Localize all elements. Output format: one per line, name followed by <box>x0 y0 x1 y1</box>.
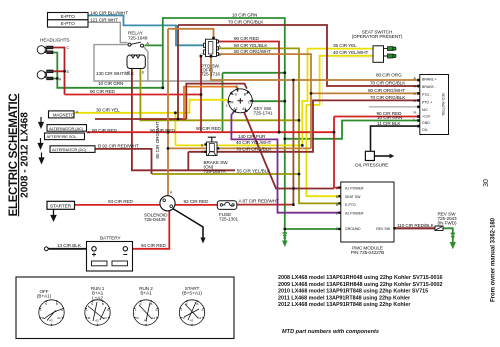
wire 55 CIR YEL/BLK <box>152 173 299 175</box>
wire N/C gray stub <box>369 106 420 108</box>
alternator dc box <box>50 146 95 153</box>
svg-text:B: B <box>197 302 199 306</box>
svg-text:725-1657A: 725-1657A <box>204 169 227 174</box>
svg-text:40 CIR YEL/WHT: 40 CIR YEL/WHT <box>333 50 368 55</box>
wire 70 CIR ORG/BLK top <box>178 25 420 86</box>
connector C30 box <box>420 75 449 135</box>
svg-text:A1: A1 <box>152 316 156 320</box>
svg-text:A2: A2 <box>144 319 148 323</box>
seat switch connector <box>373 46 396 63</box>
svg-text:PTO -: PTO - <box>422 93 432 97</box>
svg-text:725-04439: 725-04439 <box>144 217 166 222</box>
wire 70 CIR ORG/BLK vertical <box>177 25 179 119</box>
svg-text:725-1648: 725-1648 <box>128 36 148 41</box>
wire 140 CIR PUR <box>231 111 340 213</box>
svg-text:2008 - 2012 LX468: 2008 - 2012 LX468 <box>20 112 31 198</box>
svg-text:SEAT SW: SEAT SW <box>345 195 361 199</box>
wire relay coil lead D maroon <box>132 69 235 170</box>
wire 90 CIR RED headlight <box>65 94 202 96</box>
svg-text:90 CIR RED: 90 CIR RED <box>90 89 116 94</box>
wire headlight green <box>53 53 163 88</box>
wire key C orange <box>184 87 239 119</box>
svg-text:A 87 CIR RED/WHT: A 87 CIR RED/WHT <box>239 199 280 204</box>
wire headlight maroon <box>53 48 65 95</box>
svg-text:B: B <box>56 302 58 306</box>
wire 92 CIR RED/WHT <box>95 149 152 174</box>
svg-text:A2: A2 <box>49 319 53 323</box>
wire gray contact2 <box>144 47 148 82</box>
svg-text:A2 POWER: A2 POWER <box>345 211 364 215</box>
svg-text:ALTERNATOR (AC): ALTERNATOR (AC) <box>49 126 84 131</box>
wire maroon stub brake <box>187 152 189 171</box>
svg-text:A2: A2 <box>233 107 237 111</box>
connector C30 pin squares <box>417 79 420 128</box>
starter box <box>47 201 75 209</box>
svg-text:94 CIR RED: 94 CIR RED <box>141 243 167 248</box>
svg-text:B: B <box>151 302 153 306</box>
PTO switch connector <box>200 37 219 58</box>
afterfire sol box <box>45 133 85 140</box>
svg-text:A1: A1 <box>103 316 107 320</box>
wire 80 CIR ORG row <box>211 57 420 81</box>
wire 35 CIR YEL seat <box>302 49 373 146</box>
junction dots <box>283 228 286 231</box>
wire 40 CIR YEL/WHT seat <box>306 56 373 196</box>
wire 90 CIR RED +12V <box>334 116 420 118</box>
ground arrow alternator ac <box>38 138 42 149</box>
svg-text:90 CIR RED: 90 CIR RED <box>234 36 260 41</box>
legend circle START <box>179 300 204 326</box>
E-PTO box top <box>48 13 89 20</box>
svg-text:10 CIR GRN: 10 CIR GRN <box>377 115 402 120</box>
svg-text:L: L <box>226 104 228 108</box>
bottom legend box <box>16 277 234 339</box>
svg-text:OIL: OIL <box>422 128 428 132</box>
wire 80 CIR ORG solenoid vertical <box>167 29 169 196</box>
svg-text:110 CIR RED/BLK: 110 CIR RED/BLK <box>397 223 435 228</box>
wire 110 CIR RED/BLK <box>394 227 435 229</box>
headlight lamp 2 <box>37 70 53 80</box>
svg-text:11 CIR BLK: 11 CIR BLK <box>377 121 401 126</box>
svg-text:70 CIR ORG/BLK: 70 CIR ORG/BLK <box>370 95 406 100</box>
svg-text:B: B <box>102 302 104 306</box>
svg-text:M: M <box>231 100 234 104</box>
svg-text:A2: A2 <box>95 319 99 323</box>
svg-text:130 CIR WHT/BLK: 130 CIR WHT/BLK <box>96 71 135 76</box>
svg-text:2009 LX468 model 13AP61RH848 u: 2009 LX468 model 13AP61RH848 using 22hp … <box>278 282 443 288</box>
svg-text:35 CIR YEL: 35 CIR YEL <box>333 43 357 48</box>
svg-text:725-1741: 725-1741 <box>254 110 274 115</box>
svg-text:80 CIR ORG: 80 CIR ORG <box>376 73 402 78</box>
key switch <box>227 88 253 113</box>
wire 90 CIR RED PTO <box>217 42 279 133</box>
wire solenoid ground <box>173 209 203 238</box>
ground arrow alternator dc <box>39 153 43 164</box>
relay contact symbol <box>128 42 144 47</box>
svg-text:2012 LX468 model 13AP91RT848 u: 2012 LX468 model 13AP91RT848 using 22hp … <box>278 302 411 308</box>
svg-text:725-1301: 725-1301 <box>219 216 239 221</box>
wire 80 CIR ORG F stub <box>168 29 214 38</box>
solenoid <box>160 196 175 211</box>
svg-text:13 CIR BLK: 13 CIR BLK <box>57 243 82 248</box>
svg-text:BRAKE -: BRAKE - <box>422 85 437 89</box>
wire ground rail green <box>285 228 341 230</box>
svg-text:140 CIR BLU/WHT: 140 CIR BLU/WHT <box>90 10 128 15</box>
battery box <box>87 242 133 272</box>
svg-text:MTD part numbers with componen: MTD part numbers with components <box>282 329 379 335</box>
wire 93 CIR RED <box>75 204 160 206</box>
svg-text:92 CIR RED: 92 CIR RED <box>184 199 210 204</box>
svg-text:10 CIR GRN: 10 CIR GRN <box>98 81 123 86</box>
wire green cross loop <box>223 72 285 74</box>
svg-text:OIL PRESSURE: OIL PRESSURE <box>355 162 388 167</box>
wire key S maroon <box>186 84 247 119</box>
svg-text:S: S <box>186 302 188 306</box>
wire 13 CIR BLK <box>48 248 92 250</box>
brake switch <box>204 137 219 155</box>
legend circle OFF <box>39 300 64 326</box>
ground arrow oil pressure <box>390 154 395 159</box>
svg-text:MAGNETO: MAGNETO <box>53 112 75 117</box>
magneto box <box>49 111 75 118</box>
wire key A1 maroon diagonal <box>244 112 334 189</box>
svg-text:E-PTO: E-PTO <box>61 21 75 26</box>
svg-text:80 CIR ORG/WHT: 80 CIR ORG/WHT <box>234 49 271 54</box>
svg-text:140 CIR PUR: 140 CIR PUR <box>238 134 266 139</box>
svg-text:80 CIR ORG/WHT: 80 CIR ORG/WHT <box>155 121 160 158</box>
svg-text:GROUND: GROUND <box>345 227 361 231</box>
oil pressure switch <box>365 151 374 160</box>
svg-text:30: 30 <box>483 179 490 187</box>
svg-text:A1 POWER: A1 POWER <box>345 186 364 190</box>
rev switch <box>435 226 443 231</box>
wire 30 CIR YEL <box>74 100 229 113</box>
svg-text:A1: A1 <box>198 316 202 320</box>
svg-text:725-1716: 725-1716 <box>201 72 221 77</box>
ground arrow solenoid <box>200 238 205 244</box>
svg-text:40 CIR YEL/WHT: 40 CIR YEL/WHT <box>236 140 271 145</box>
svg-text:B+A1: B+A1 <box>140 291 152 296</box>
svg-text:S: S <box>140 302 142 306</box>
svg-text:From owner manual 3362-180: From owner manual 3362-180 <box>491 217 497 302</box>
svg-text:2008 LX468 model 13AP61RH048 u: 2008 LX468 model 13AP61RH048 using 22hp … <box>278 275 443 281</box>
PMC pin squares <box>338 186 395 230</box>
svg-text:80 CIR ORG/WHT: 80 CIR ORG/WHT <box>368 88 405 93</box>
svg-text:BATTERY: BATTERY <box>100 236 121 241</box>
ground green drop <box>283 229 288 241</box>
svg-text:A1: A1 <box>242 107 246 111</box>
svg-text:B 92 CIR RED/WHT: B 92 CIR RED/WHT <box>98 143 139 148</box>
wire 90 CIR RED A1 POWER <box>334 117 341 188</box>
wire rev switch green <box>443 228 456 242</box>
svg-text:E-PTO: E-PTO <box>345 203 356 207</box>
svg-text:YELLOW C/30: YELLOW C/30 <box>442 93 446 116</box>
svg-text:+12V: +12V <box>422 115 431 119</box>
wire 30 CIR YEL branch <box>174 113 176 146</box>
wire 80 CIR ORG/WHT C30 <box>311 92 420 94</box>
wire 140 CIR BLU/WHT <box>88 16 205 46</box>
wire 130 CIR WHT/BLK <box>94 45 223 81</box>
svg-text:(B+A1): (B+A1) <box>37 294 52 299</box>
wire 80 CIR ORG/WHT cross <box>168 147 311 149</box>
svg-text:70 CIR ORG/BLK: 70 CIR ORG/BLK <box>228 20 264 25</box>
svg-text:(B+S+A1): (B+S+A1) <box>182 291 202 296</box>
alternator ac box <box>47 125 87 132</box>
svg-text:55 CIR YEL/BLK: 55 CIR YEL/BLK <box>237 169 271 174</box>
fuse <box>217 201 237 210</box>
svg-text:70 CIR ORG/BLK: 70 CIR ORG/BLK <box>370 81 406 86</box>
wire 40 CIR YEL/WHT white stripe <box>322 58 371 105</box>
svg-text:93 CIR RED: 93 CIR RED <box>108 199 134 204</box>
wire 121 CIR WHT <box>88 22 128 42</box>
svg-text:2010 LX468 model 13AP91RT848 u: 2010 LX468 model 13AP91RT848 using 22hp … <box>278 289 428 295</box>
ground arrow magneto <box>39 117 43 128</box>
svg-text:(IN FWD): (IN FWD) <box>438 221 458 226</box>
svg-text:A2: A2 <box>190 319 194 323</box>
relay coil <box>127 55 145 69</box>
svg-text:10 CIR GRN: 10 CIR GRN <box>232 13 257 18</box>
E-PTO box bottom <box>48 20 89 27</box>
wire 94 CIR RED <box>128 211 170 249</box>
wire 50 CIR YEL/BLK <box>217 48 341 203</box>
svg-text:121 CIR WHT: 121 CIR WHT <box>90 17 118 22</box>
ground arrow green <box>282 241 288 248</box>
wire 90 CIR RED main <box>87 131 335 133</box>
svg-text:(OPERATOR PRESENT): (OPERATOR PRESENT) <box>352 34 403 39</box>
svg-text:90 CIR RED: 90 CIR RED <box>196 126 222 131</box>
wire PTO pin maroon <box>200 57 202 133</box>
legend circle RUN1 <box>85 300 110 326</box>
svg-text:A1: A1 <box>57 316 61 320</box>
svg-text:S: S <box>45 302 47 306</box>
wire oil pressure stub <box>374 155 389 157</box>
wire green vertical key <box>222 73 224 132</box>
legend circle RUN2 <box>133 300 158 326</box>
wire 80 CIR ORG/WHT PTO <box>217 54 311 148</box>
headlight lamp 1 <box>37 46 53 54</box>
ground arrow starter <box>51 210 56 221</box>
svg-text:ALTERNATOR (DC): ALTERNATOR (DC) <box>52 147 87 152</box>
svg-text:STARTER: STARTER <box>50 203 72 208</box>
wire 40 CIR YEL/WHT bus <box>175 144 302 146</box>
svg-text:ELECTRIC SCHEMATIC: ELECTRIC SCHEMATIC <box>8 94 20 217</box>
svg-text:30 CIR YEL: 30 CIR YEL <box>96 107 120 112</box>
svg-text:P/N 725-04227B: P/N 725-04227B <box>351 250 384 255</box>
svg-text:N/C: N/C <box>422 108 429 112</box>
svg-text:AFTERFIRE SOL.: AFTERFIRE SOL. <box>47 134 78 139</box>
svg-text:BRAKE +: BRAKE + <box>422 78 437 82</box>
wire 10 CIR GRN relay <box>145 18 285 229</box>
ground arrow rev sw <box>450 242 456 249</box>
svg-text:L+A2: L+A2 <box>92 295 103 300</box>
wire key switch D green <box>252 100 285 102</box>
wire 87 riser tan <box>292 80 294 205</box>
wire relay coil lead E olive <box>140 69 299 120</box>
svg-text:PTO +: PTO + <box>422 100 432 104</box>
svg-text:S: S <box>91 302 93 306</box>
wire 87 CIR RED/WHT <box>237 204 294 206</box>
svg-text:90 CIR RED: 90 CIR RED <box>92 128 118 133</box>
svg-text:REV SW: REV SW <box>376 227 391 231</box>
wire maroon y119 <box>95 118 186 120</box>
svg-text:HEADLIGHTS: HEADLIGHTS <box>40 38 69 43</box>
svg-text:50 CIR YEL/BLK: 50 CIR YEL/BLK <box>234 43 268 48</box>
svg-text:L: L <box>414 118 416 122</box>
svg-text:2011 LX468 model 13AP91RT848 u: 2011 LX468 model 13AP91RT848 using 22hp … <box>278 295 411 301</box>
PMC module box <box>341 182 394 242</box>
svg-text:F: F <box>213 36 215 40</box>
svg-text:GND: GND <box>422 121 430 125</box>
svg-text:E-PTO: E-PTO <box>61 14 75 19</box>
svg-text:70 CIR ORG/BLK: 70 CIR ORG/BLK <box>236 147 272 152</box>
wire 11 CIR BLK <box>371 126 420 151</box>
battery connector ring <box>44 247 48 251</box>
wire 92 CIR RED <box>175 204 217 206</box>
wire 70 CIR ORG/BLK mid <box>188 100 419 151</box>
wire 10 CIR GRN C30 GND <box>285 121 420 139</box>
